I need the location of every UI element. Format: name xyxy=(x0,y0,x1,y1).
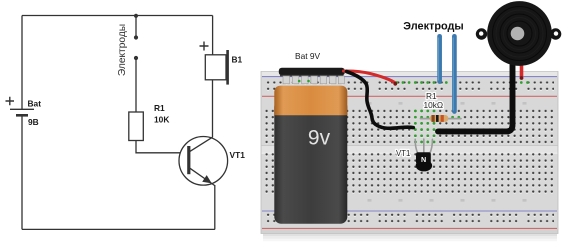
svg-text:10K: 10K xyxy=(154,115,169,125)
breadboard top blue rail line xyxy=(262,76,557,78)
transistor VT1 legs (breadboard) xyxy=(415,139,432,154)
wire red battery lead tip xyxy=(393,82,397,86)
battery Bat plus sign xyxy=(6,97,15,106)
wire red buzzer lead xyxy=(520,57,524,77)
wire black buzzer lead xyxy=(438,57,513,131)
transistor VT1 emitter line xyxy=(189,168,215,186)
wire emitter down xyxy=(214,185,216,229)
node electrode gap upper xyxy=(134,35,138,39)
svg-text:10kΩ: 10kΩ xyxy=(424,100,444,110)
svg-text:Bat: Bat xyxy=(28,99,42,109)
node electrode gap lower xyxy=(134,56,138,60)
breadboard bottom rail holes xyxy=(266,213,554,226)
resistor R1 xyxy=(129,112,144,141)
buzzer B1 bar xyxy=(226,50,229,85)
resistor R1 leads (breadboard) xyxy=(421,118,462,120)
transistor VT1 body (breadboard) xyxy=(416,152,432,171)
green connected holes main block xyxy=(414,110,460,144)
node junction top (electrode tap) xyxy=(134,14,138,18)
buzzer B1 plus sign xyxy=(200,42,209,51)
breadboard base xyxy=(261,72,558,234)
buzzer (breadboard) body xyxy=(487,1,552,66)
transistor VT1 collector line xyxy=(189,137,212,152)
breadboard bottom blue rail line xyxy=(262,210,557,212)
breadboard main holes lower block xyxy=(264,151,554,194)
buzzer (breadboard) right ear xyxy=(550,28,561,39)
wire blue electrode left xyxy=(437,36,442,81)
svg-text:Электроды: Электроды xyxy=(117,24,128,76)
wire blue electrode right xyxy=(452,36,457,111)
green connected holes top rail xyxy=(395,81,529,84)
wire left vertical upper xyxy=(21,16,23,110)
svg-text:R1: R1 xyxy=(154,103,165,113)
breadboard bottom shadow xyxy=(263,234,557,242)
wire buzzer to collector xyxy=(212,80,214,138)
wire red buzzer lead tip xyxy=(520,76,524,80)
wire black battery lead xyxy=(347,72,414,129)
wire bottom horizontal xyxy=(22,228,215,230)
wire left vertical lower xyxy=(21,115,23,229)
battery clip Bat 9V xyxy=(279,68,345,76)
breadboard column markers xyxy=(368,102,527,202)
wire red battery lead xyxy=(344,71,395,82)
transistor VT1 base bar xyxy=(187,146,190,174)
transistor VT1 emitter arrow xyxy=(202,175,212,183)
breadboard center groove xyxy=(262,146,558,154)
svg-text:B1: B1 xyxy=(232,55,243,65)
wire resistor to base xyxy=(136,141,187,153)
svg-text:VT1: VT1 xyxy=(230,150,246,160)
breadboard bottom red rail line xyxy=(262,227,557,229)
battery Bat short plate xyxy=(16,114,28,117)
svg-text:N: N xyxy=(421,155,426,164)
breadboard main holes upper block xyxy=(264,108,554,145)
svg-text:9В: 9В xyxy=(28,117,39,127)
wire right vertical above buzzer xyxy=(212,16,214,55)
battery 9v body black xyxy=(274,100,347,224)
battery 9v orange band xyxy=(274,86,347,116)
wire electrode lower segment to resistor xyxy=(135,58,137,112)
wire electrode upper segment xyxy=(135,16,137,38)
wire top horizontal xyxy=(22,15,213,17)
breadboard top red rail line xyxy=(262,95,557,97)
breadboard top rail holes xyxy=(266,79,554,92)
svg-text:9v: 9v xyxy=(308,127,331,150)
buzzer B1 body xyxy=(205,55,226,80)
battery Bat long plate xyxy=(10,108,34,110)
buzzer (breadboard) left ear xyxy=(476,28,487,39)
battery clip tabs xyxy=(283,76,344,84)
resistor R1 body (breadboard) xyxy=(430,115,449,122)
svg-text:Bat 9V: Bat 9V xyxy=(295,51,321,61)
svg-text:Электроды: Электроды xyxy=(403,21,463,33)
transistor VT1 circle xyxy=(179,137,228,186)
svg-text:VT1: VT1 xyxy=(396,149,410,158)
